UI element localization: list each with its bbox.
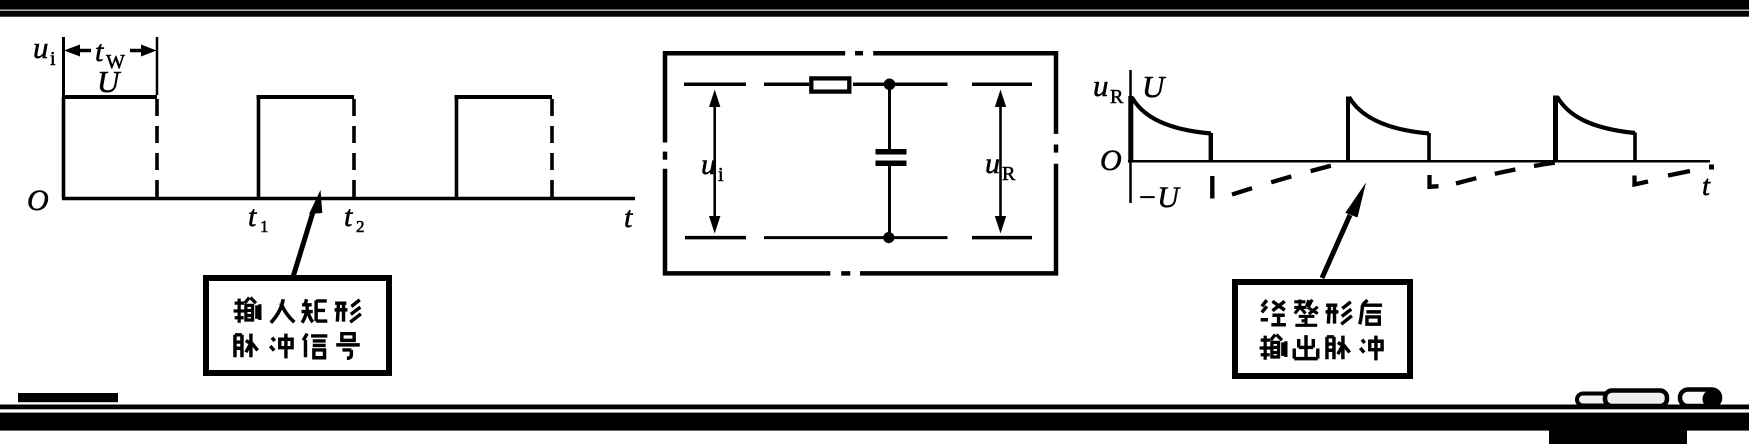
bottom-right spill block (1549, 425, 1687, 444)
text 脉冲信号 (235, 334, 258, 358)
svg-text:t: t (248, 200, 257, 233)
wire resistor to node (853, 83, 948, 87)
svg-text:1: 1 (260, 217, 269, 236)
svg-text:u: u (985, 147, 1000, 180)
text 经整形后 (1261, 300, 1286, 325)
spike 1 undershoot dash (1210, 176, 1214, 199)
vertical axis (left waveform) (62, 37, 65, 200)
svg-text:t: t (624, 201, 633, 234)
spike 3 rising edge (1553, 96, 1558, 161)
callout box: 经整形后/输出脉冲 (1235, 282, 1410, 376)
svg-text:U: U (97, 64, 122, 99)
callout box: 输入矩形/脉冲信号 (206, 278, 389, 373)
boundary bottom edge (chain line) (663, 271, 830, 276)
svg-text:2: 2 (356, 217, 365, 236)
svg-text:t: t (344, 200, 353, 233)
tW dimension tick line (156, 37, 159, 95)
bottom wire right segment (972, 236, 1032, 240)
u_i measuring arrow (double-headed) (713, 102, 716, 222)
pulse 3 top edge (455, 95, 553, 99)
scan artifact blob (1703, 390, 1722, 409)
svg-text:u: u (1093, 68, 1109, 103)
svg-text:u: u (33, 30, 49, 65)
top wire left segment (684, 83, 746, 87)
horizontal time axis (left waveform) (62, 197, 635, 201)
svg-text:t: t (1702, 170, 1711, 202)
svg-text:U: U (1142, 69, 1167, 104)
tW left arrow (64, 45, 80, 57)
text 输出脉冲 (1260, 335, 1286, 360)
top wire input segment (764, 83, 809, 87)
svg-text:u: u (701, 148, 716, 181)
svg-text:i: i (718, 164, 724, 186)
svg-text:i: i (50, 48, 56, 70)
pulse 2 trailing dashed edge (352, 99, 356, 198)
spike 1 decay curve (1132, 98, 1211, 134)
svg-text:R: R (1110, 86, 1124, 108)
spike 2 undershoot dash (1430, 175, 1439, 187)
pulse 1 top edge (63, 95, 157, 99)
boundary top edge (chain line) (663, 51, 845, 56)
spike 2 rising edge (1346, 97, 1350, 161)
text 输入矩形 (234, 298, 260, 323)
spike 1 rising edge (1128, 96, 1133, 161)
boundary right edge (chain line) (1054, 51, 1059, 134)
bottom thin rule (0, 405, 1749, 410)
recovery dashed curve 2 (1456, 163, 1556, 184)
bottom wire middle segment (764, 236, 948, 239)
boundary left edge (chain line) (663, 51, 668, 143)
scan artifact pill 1b (1605, 391, 1667, 407)
capacitor C plates (876, 149, 907, 155)
pulse 3 left edge (455, 97, 459, 198)
pulse 1 trailing dashed edge (155, 99, 159, 198)
svg-text:O: O (27, 184, 49, 217)
spike 3 falling edge (1633, 133, 1637, 162)
scan artifact pill 2 (1680, 390, 1720, 407)
scan artifact pill 1a (1577, 394, 1615, 406)
recovery dashed curve 1 (1232, 163, 1341, 194)
svg-text:R: R (1002, 163, 1016, 185)
bottom wire left segment (685, 236, 746, 240)
capacitor C top lead (888, 88, 891, 150)
u_R measuring arrow (double-headed) (999, 102, 1002, 222)
svg-text:−U: −U (1137, 181, 1181, 214)
spike 3 decay curve (1557, 97, 1635, 134)
bottom-left black tab (18, 393, 118, 402)
horizontal axis (right waveform) (1128, 160, 1710, 163)
vertical axis (right waveform) (1129, 70, 1132, 203)
node (top junction dot) (884, 79, 896, 91)
top wire right segment (972, 83, 1032, 87)
pulse 1 left edge (62, 97, 66, 198)
node (bottom junction dot) (883, 232, 894, 243)
tW right arrow (130, 49, 143, 53)
bottom thick rule (0, 413, 1749, 431)
resistor R (811, 78, 849, 91)
svg-text:O: O (1100, 144, 1122, 177)
callout arrow (input label) (293, 212, 313, 277)
pulse 2 left edge (257, 97, 261, 198)
pulse 3 trailing dashed edge (550, 99, 554, 198)
spike 1 falling edge (1209, 133, 1213, 163)
recovery dashed curve 3 (1635, 176, 1649, 185)
capacitor C bottom lead (888, 166, 891, 233)
callout arrow (output label) (1322, 215, 1350, 278)
spike 2 falling edge (1427, 133, 1431, 163)
spike 2 decay curve (1349, 97, 1429, 134)
top border bar (double black rule) (0, 0, 1749, 10)
pulse 2 top edge (257, 95, 355, 99)
